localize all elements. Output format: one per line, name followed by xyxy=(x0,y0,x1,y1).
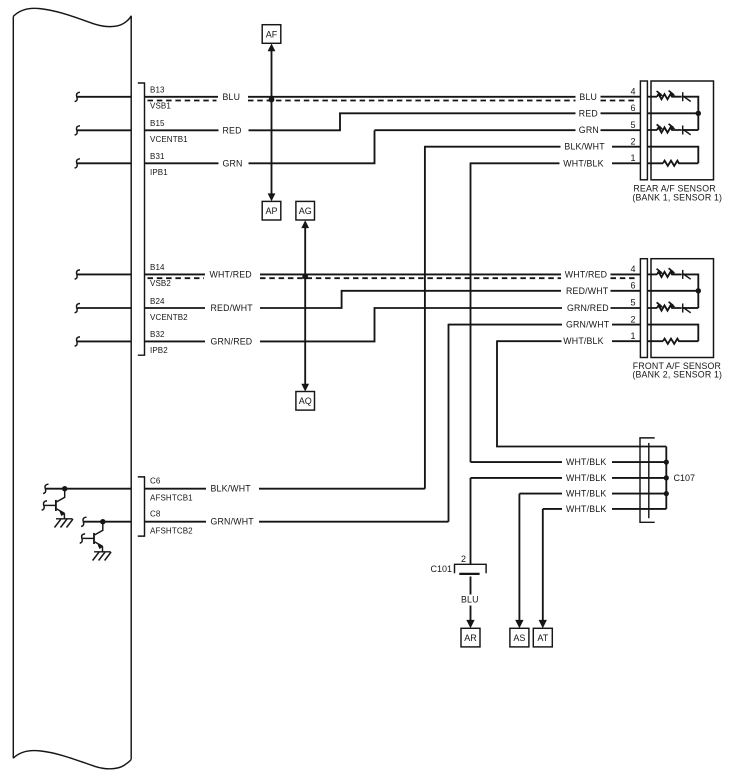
connector C107 bracket xyxy=(640,438,655,522)
svg-text:B24: B24 xyxy=(150,297,165,306)
svg-text:IPB1: IPB1 xyxy=(150,168,168,177)
arrow into AS xyxy=(515,620,523,628)
svg-text:C107: C107 xyxy=(674,473,696,483)
svg-text:RED/WHT: RED/WHT xyxy=(566,286,609,296)
svg-text:C101: C101 xyxy=(431,564,453,574)
svg-text:WHT/BLK: WHT/BLK xyxy=(563,158,603,168)
rear sensor internal circuit xyxy=(647,90,701,166)
wire WHT/BLK front pin1 xyxy=(497,340,640,342)
connector bracket B (ECU pins C6,C8) xyxy=(138,477,145,536)
svg-text:AQ: AQ xyxy=(299,396,312,406)
wire to AT xyxy=(542,509,544,621)
rear A/F sensor connector xyxy=(640,81,647,180)
connector bracket A (ECU pins B13..B32) xyxy=(138,83,145,355)
wire vertical WHT/BLK to C107 row1 xyxy=(497,340,666,446)
box AR xyxy=(461,628,480,647)
svg-text:WHT/BLK: WHT/BLK xyxy=(566,489,606,499)
svg-text:GRN/RED: GRN/RED xyxy=(567,303,609,313)
svg-text:GRN: GRN xyxy=(223,158,243,168)
junction dot VSB1 xyxy=(269,97,275,103)
svg-text:(BANK 2, SENSOR 1): (BANK 2, SENSOR 1) xyxy=(632,370,722,380)
svg-text:AG: AG xyxy=(299,206,312,216)
rear A/F sensor body xyxy=(651,81,714,180)
pin numbers rear sensor xyxy=(630,86,635,163)
C107 wires row3 xyxy=(471,477,667,479)
wire BLK/WHT rear pin2 xyxy=(425,146,641,148)
svg-text:B13: B13 xyxy=(150,86,165,95)
svg-text:5: 5 xyxy=(630,120,635,130)
labels WHT/BLK at C107 xyxy=(566,457,606,514)
svg-text:1: 1 xyxy=(630,331,635,341)
svg-text:AF: AF xyxy=(266,29,278,39)
wire VCENTB2 RED/WHT xyxy=(145,291,641,308)
svg-text:RED: RED xyxy=(579,108,598,118)
C107 wires row5 xyxy=(543,508,667,510)
C107 wires row2 xyxy=(471,461,667,463)
wire stub C6 inside ECU xyxy=(43,484,131,493)
svg-text:5: 5 xyxy=(630,298,635,308)
svg-text:WHT/BLK: WHT/BLK xyxy=(566,504,606,514)
arrow into AT xyxy=(539,620,547,628)
svg-text:AR: AR xyxy=(464,633,477,643)
pin label B24 / VCENTB2 xyxy=(150,297,188,322)
svg-text:AFSHTCB2: AFSHTCB2 xyxy=(150,527,193,536)
wire stub B13 inside ECU xyxy=(75,92,132,101)
wire stub B15 inside ECU xyxy=(75,126,132,135)
pin numbers front sensor xyxy=(630,264,635,341)
svg-text:AFSHTCB1: AFSHTCB1 xyxy=(150,494,193,503)
svg-text:2: 2 xyxy=(461,554,466,564)
wire VCENTB1 RED xyxy=(145,113,641,130)
wire stub B31 inside ECU xyxy=(75,159,132,168)
wire vertical GRN/WHT to C8 xyxy=(448,324,450,522)
arrow AG-AQ xyxy=(301,220,309,391)
pin label B15 / VCENTB1 xyxy=(150,119,188,144)
svg-text:WHT/BLK: WHT/BLK xyxy=(563,336,603,346)
svg-text:GRN/WHT: GRN/WHT xyxy=(211,517,255,527)
svg-text:2: 2 xyxy=(630,136,635,146)
front A/F sensor connector xyxy=(640,259,647,358)
svg-text:GRN/RED: GRN/RED xyxy=(211,336,253,346)
arrow AF-AP xyxy=(268,44,276,202)
front A/F sensor body xyxy=(651,259,714,358)
pin label B13 / VSB1 xyxy=(150,86,171,111)
wire vertical WHT/BLK to C107 row2 xyxy=(470,163,472,463)
ECU torn band left edge xyxy=(13,8,131,769)
box AT xyxy=(533,628,552,647)
svg-text:AS: AS xyxy=(513,633,525,643)
svg-text:AP: AP xyxy=(265,206,277,216)
wire stub B32 inside ECU xyxy=(75,337,132,346)
pin label C8 / AFSHTCB2 xyxy=(150,509,193,535)
wire BLU below C101 xyxy=(470,577,472,621)
svg-text:VCENTB1: VCENTB1 xyxy=(150,135,188,144)
wire IPB1 GRN xyxy=(145,130,641,163)
svg-text:BLK/WHT: BLK/WHT xyxy=(564,142,605,152)
svg-text:GRN/WHT: GRN/WHT xyxy=(566,320,610,330)
junction dot C6 xyxy=(62,486,67,491)
svg-text:2: 2 xyxy=(630,314,635,324)
wire VSB2 solid WHT/RED xyxy=(145,273,641,275)
transistor Q1 xyxy=(42,489,66,519)
front sensor caption xyxy=(632,361,722,380)
junction dots C107 xyxy=(664,460,669,497)
wire IPB2 GRN/RED xyxy=(145,308,641,341)
svg-text:RED/WHT: RED/WHT xyxy=(211,303,254,313)
svg-text:BLU: BLU xyxy=(579,92,597,102)
svg-text:4: 4 xyxy=(630,264,635,274)
box AS xyxy=(510,628,529,647)
box AF xyxy=(262,25,281,44)
wire stub B24 inside ECU xyxy=(75,304,132,313)
wire VSB2 shield dashed xyxy=(148,277,638,279)
pin label B31 / IPB1 xyxy=(150,152,168,177)
pin label B14 / VSB2 xyxy=(150,263,171,288)
svg-text:VSB1: VSB1 xyxy=(150,102,171,111)
box AG xyxy=(296,201,315,220)
svg-text:B15: B15 xyxy=(150,119,165,128)
svg-text:BLK/WHT: BLK/WHT xyxy=(211,484,252,494)
svg-text:6: 6 xyxy=(630,281,635,291)
arrow into AR xyxy=(466,620,474,628)
svg-text:4: 4 xyxy=(630,86,635,96)
svg-text:BLU: BLU xyxy=(223,92,241,102)
wire GRN/WHT front pin2 xyxy=(449,324,641,326)
svg-text:VCENTB2: VCENTB2 xyxy=(150,313,188,322)
svg-text:RED: RED xyxy=(223,125,242,135)
box AQ xyxy=(296,392,315,411)
svg-text:6: 6 xyxy=(630,103,635,113)
svg-text:C6: C6 xyxy=(150,476,161,485)
svg-text:B32: B32 xyxy=(150,330,165,339)
C107 wires row4 xyxy=(519,493,666,495)
pin label B32 / IPB2 xyxy=(150,330,168,355)
svg-text:IPB2: IPB2 xyxy=(150,346,168,355)
svg-text:AT: AT xyxy=(537,633,548,643)
ground G2 xyxy=(93,552,112,561)
svg-text:WHT/BLK: WHT/BLK xyxy=(566,473,606,483)
wire AFSHTCB1 BLK/WHT row xyxy=(145,488,425,490)
svg-text:GRN: GRN xyxy=(579,125,599,135)
svg-text:C8: C8 xyxy=(150,509,161,518)
svg-text:B31: B31 xyxy=(150,152,165,161)
junction dot VSB2 xyxy=(302,274,308,280)
wire VSB1 solid BLU xyxy=(145,96,641,98)
wire stub C8 inside ECU xyxy=(81,517,131,526)
pin label C6 / AFSHTCB1 xyxy=(150,476,193,502)
wire to AS xyxy=(518,494,520,621)
svg-text:VSB2: VSB2 xyxy=(150,279,171,288)
C107 row1 through-segment xyxy=(665,447,667,509)
front sensor internal circuit xyxy=(647,267,701,343)
svg-text:1: 1 xyxy=(630,153,635,163)
connector C101 xyxy=(455,564,487,574)
transistor Q2 xyxy=(80,522,104,552)
ground G1 xyxy=(55,519,74,528)
box AP xyxy=(262,201,281,220)
rear sensor caption xyxy=(632,184,722,203)
svg-text:(BANK 1, SENSOR 1): (BANK 1, SENSOR 1) xyxy=(632,192,722,202)
svg-text:BLU: BLU xyxy=(461,595,479,605)
svg-text:WHT/RED: WHT/RED xyxy=(565,269,607,279)
wire stub B14 inside ECU xyxy=(75,270,132,279)
wire vertical BLK/WHT to C6 xyxy=(424,146,426,489)
svg-text:WHT/BLK: WHT/BLK xyxy=(566,457,606,467)
svg-text:WHT/RED: WHT/RED xyxy=(210,269,252,279)
junction dot C8 xyxy=(100,519,105,524)
wire to C101 xyxy=(470,478,472,564)
wire VSB1 shield dashed xyxy=(148,100,638,102)
wire AFSHTCB2 GRN/WHT row xyxy=(145,521,449,523)
wire WHT/BLK rear pin1 xyxy=(471,162,641,164)
svg-text:B14: B14 xyxy=(150,263,165,272)
